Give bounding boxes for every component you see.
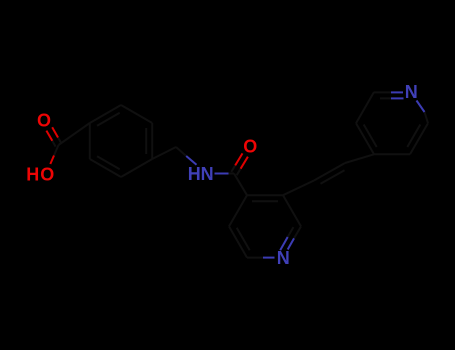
inner double C5-C6: [237, 228, 250, 251]
amide N-C bond gray half: [229, 173, 235, 175]
inner double C2-N blue part: [280, 237, 288, 250]
edge N=Ca top gray part: [374, 91, 391, 93]
inner double L-BL: [364, 125, 377, 148]
edge V4-V5: [121, 159, 152, 177]
edge BR-R: [410, 123, 428, 154]
CH2 to amide N bond (gray half): [176, 147, 186, 156]
inner double V5-V6: [97, 156, 120, 169]
edge V5-V6: [90, 159, 121, 177]
acid C=O double bond (gray C-half, red O-half): [46, 127, 61, 146]
CH2 to amide N bond (blue half): [186, 156, 196, 165]
chain bond C3-P1: [283, 181, 314, 196]
inner double N=Ca blue part: [391, 97, 404, 99]
edge V3-V4: [151, 123, 153, 159]
edge Ca-L: [356, 92, 374, 123]
chain double bond P1-P2 inner: [321, 170, 345, 184]
svg-text:O: O: [243, 137, 257, 157]
inner double V1-V2: [97, 113, 120, 126]
inner double V3-V4: [145, 128, 147, 154]
edge C3-C2: [283, 195, 301, 226]
acid C-OH bond (gray C-half, red O-half): [54, 145, 59, 156]
svg-text:O: O: [40, 165, 54, 185]
inner double C4-C3: [252, 200, 278, 202]
amide C=O double bond (gray C-half, red O-half): [231, 153, 248, 175]
edge C5-C6: [229, 226, 247, 257]
edge R-N gray part: [425, 112, 429, 123]
benzene ring (center 121,141 R36): [90, 105, 152, 177]
bond acid C to benzene ring V1: [59, 123, 90, 145]
svg-text:N: N: [277, 248, 290, 268]
edge C6-N gray part: [247, 257, 263, 259]
edge C4-C5: [229, 195, 247, 226]
edge N=Ca top blue part: [391, 91, 403, 93]
chain double bond P1-P2 main: [314, 163, 345, 181]
edge BL-BR bottom: [374, 153, 410, 155]
edge C2-N gray part: [294, 226, 301, 238]
svg-text:H: H: [26, 165, 39, 185]
edge V6-V1: [89, 123, 91, 159]
svg-text:O: O: [37, 110, 51, 130]
edge C4-C3 top: [247, 194, 283, 196]
inner double C2-N gray part: [288, 227, 294, 237]
edge R-N blue part: [417, 101, 425, 113]
inner double N=Ca gray part: [380, 97, 391, 99]
edge C6-N blue part: [263, 257, 275, 259]
svg-text:N: N: [405, 82, 418, 102]
chain bond P2-BL: [345, 154, 374, 163]
edge L-BL: [356, 123, 374, 154]
bond carbonyl C to pyridine C4: [234, 174, 247, 196]
inner double BR-R: [407, 125, 420, 148]
top pyridine ring (flat-top, N at top-right): [356, 92, 428, 154]
benzylic CH2 bond from ring V4: [152, 147, 176, 159]
svg-text:HN: HN: [188, 164, 214, 184]
bottom pyridine ring (center 265,226.4 R36): [229, 195, 301, 257]
amide N-C bond blue half: [215, 173, 229, 175]
edge C2-N blue part: [288, 238, 294, 249]
edge V1-V2: [90, 105, 121, 123]
edge V2-V3: [121, 105, 152, 123]
